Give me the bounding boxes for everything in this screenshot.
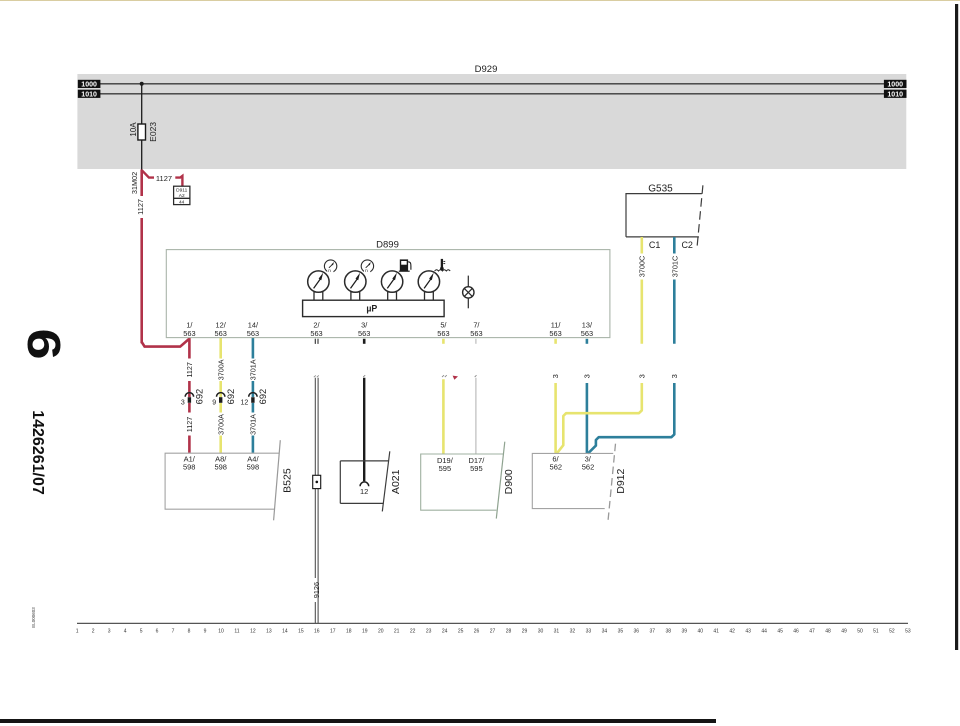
- svg-text:9126: 9126: [312, 582, 321, 598]
- svg-text:EL000603: EL000603: [31, 607, 36, 628]
- svg-text:42: 42: [729, 629, 735, 635]
- svg-text:31: 31: [554, 629, 560, 635]
- svg-text:598: 598: [247, 463, 260, 472]
- svg-text:563: 563: [437, 329, 449, 338]
- svg-text:45: 45: [777, 629, 783, 635]
- svg-text:692: 692: [195, 389, 205, 405]
- svg-text:50: 50: [857, 629, 863, 635]
- svg-text:1127: 1127: [185, 362, 194, 377]
- svg-text:17: 17: [330, 629, 336, 635]
- svg-text:6: 6: [156, 629, 159, 635]
- svg-text:563: 563: [183, 329, 195, 338]
- svg-text:35: 35: [618, 629, 624, 635]
- svg-text:26: 26: [474, 629, 480, 635]
- svg-text:12: 12: [250, 629, 256, 635]
- svg-text:3701C: 3701C: [670, 256, 679, 278]
- svg-text:25: 25: [458, 629, 464, 635]
- svg-text:44: 44: [179, 199, 185, 205]
- svg-text:51: 51: [873, 629, 879, 635]
- svg-text:D912: D912: [615, 468, 627, 493]
- svg-text:692: 692: [258, 389, 268, 405]
- svg-text:37: 37: [650, 629, 656, 635]
- svg-text:E023: E023: [148, 122, 158, 142]
- svg-text:38: 38: [665, 629, 671, 635]
- svg-text:30: 30: [538, 629, 544, 635]
- svg-text:G535: G535: [648, 184, 673, 195]
- svg-text:563: 563: [581, 329, 593, 338]
- svg-text:595: 595: [470, 464, 483, 473]
- svg-text:563: 563: [358, 329, 370, 338]
- svg-text:20: 20: [378, 629, 384, 635]
- svg-text:1: 1: [76, 629, 79, 635]
- svg-text:598: 598: [214, 463, 227, 472]
- svg-text:D929: D929: [475, 64, 498, 75]
- svg-text:4: 4: [124, 629, 127, 635]
- svg-text:32: 32: [570, 629, 576, 635]
- svg-text:3700C: 3700C: [638, 256, 647, 278]
- svg-text:562: 562: [550, 463, 563, 472]
- svg-text:1426261/07: 1426261/07: [29, 410, 46, 495]
- svg-text:21: 21: [394, 629, 400, 635]
- svg-text:1000: 1000: [81, 82, 97, 89]
- svg-text:22: 22: [410, 629, 416, 635]
- svg-text:563: 563: [247, 329, 259, 338]
- svg-text:27: 27: [490, 629, 496, 635]
- svg-text:n: n: [328, 269, 331, 274]
- svg-text:43: 43: [745, 629, 751, 635]
- svg-text:563: 563: [470, 329, 482, 338]
- svg-text:D911: D911: [176, 188, 187, 194]
- svg-text:29: 29: [522, 629, 528, 635]
- svg-text:46: 46: [793, 629, 799, 635]
- svg-text:47: 47: [809, 629, 815, 635]
- svg-text:n: n: [365, 269, 368, 274]
- svg-text:9: 9: [212, 400, 216, 407]
- svg-text:16: 16: [314, 629, 320, 635]
- svg-text:12: 12: [241, 400, 249, 407]
- svg-text:692: 692: [226, 389, 236, 405]
- svg-text:595: 595: [439, 464, 452, 473]
- svg-text:3: 3: [181, 400, 185, 407]
- svg-text:563: 563: [215, 329, 227, 338]
- svg-text:40: 40: [697, 629, 703, 635]
- svg-text:562: 562: [582, 463, 595, 472]
- svg-text:33: 33: [586, 629, 592, 635]
- svg-text:1000: 1000: [887, 82, 903, 89]
- svg-text:563: 563: [310, 329, 322, 338]
- svg-text:C1: C1: [649, 240, 661, 250]
- svg-text:3700A: 3700A: [216, 359, 225, 380]
- svg-text:12: 12: [360, 487, 368, 496]
- svg-text:28: 28: [506, 629, 512, 635]
- svg-text:24: 24: [442, 629, 448, 635]
- svg-text:3: 3: [582, 374, 591, 378]
- svg-text:52: 52: [889, 629, 895, 635]
- svg-text:31M02: 31M02: [130, 172, 139, 194]
- svg-text:53: 53: [905, 629, 911, 635]
- svg-text:9: 9: [204, 629, 207, 635]
- svg-text:10: 10: [218, 629, 224, 635]
- svg-text:41: 41: [713, 629, 719, 635]
- svg-text:34: 34: [602, 629, 608, 635]
- svg-text:14: 14: [282, 629, 288, 635]
- svg-text:1127: 1127: [185, 417, 194, 432]
- svg-text:2: 2: [92, 629, 95, 635]
- svg-text:1127: 1127: [156, 174, 172, 183]
- svg-text:3700A: 3700A: [216, 414, 225, 435]
- svg-text:D899: D899: [376, 240, 399, 251]
- svg-text:13: 13: [266, 629, 272, 635]
- svg-text:598: 598: [183, 463, 196, 472]
- svg-text:7: 7: [172, 629, 175, 635]
- svg-text:9: 9: [19, 328, 70, 359]
- svg-text:39: 39: [681, 629, 687, 635]
- svg-text:3701A: 3701A: [249, 359, 258, 380]
- svg-text:C2: C2: [681, 240, 693, 250]
- svg-text:3: 3: [108, 629, 111, 635]
- svg-text:3: 3: [551, 374, 560, 378]
- svg-text:44: 44: [761, 629, 767, 635]
- svg-text:D900: D900: [503, 469, 515, 494]
- svg-text:5: 5: [140, 629, 143, 635]
- svg-text:8: 8: [188, 629, 191, 635]
- svg-text:15: 15: [298, 629, 304, 635]
- svg-text:36: 36: [634, 629, 640, 635]
- svg-text:3: 3: [637, 374, 646, 378]
- svg-text:µP: µP: [366, 303, 377, 313]
- svg-text:19: 19: [362, 629, 368, 635]
- svg-text:1010: 1010: [81, 92, 97, 99]
- svg-text:23: 23: [426, 629, 432, 635]
- svg-text:A2: A2: [179, 193, 185, 199]
- svg-text:563: 563: [549, 329, 561, 338]
- svg-text:10A: 10A: [129, 122, 138, 137]
- svg-text:18: 18: [346, 629, 352, 635]
- svg-text:11: 11: [234, 629, 239, 635]
- svg-text:49: 49: [841, 629, 847, 635]
- svg-text:1010: 1010: [887, 92, 903, 99]
- svg-text:1127: 1127: [136, 199, 145, 215]
- svg-text:B525: B525: [282, 468, 294, 493]
- svg-text:A021: A021: [390, 469, 402, 494]
- svg-text:3701A: 3701A: [249, 414, 258, 435]
- svg-text:48: 48: [825, 629, 831, 635]
- svg-text:3: 3: [670, 374, 679, 378]
